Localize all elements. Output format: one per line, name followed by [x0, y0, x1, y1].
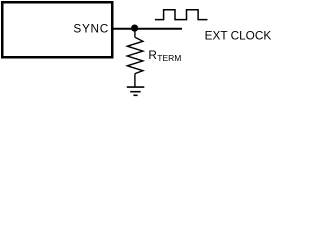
node junction dot	[131, 25, 138, 32]
ground	[127, 87, 145, 95]
resistor RTERM zigzag	[127, 37, 143, 73]
svg-text:EXT CLOCK: EXT CLOCK	[205, 29, 272, 43]
wire junction to resistor	[134, 29, 136, 38]
wire resistor to ground	[134, 74, 136, 88]
wire SYNC horizontal	[112, 28, 182, 30]
svg-text:SYNC: SYNC	[73, 21, 109, 35]
device box U1	[2, 2, 112, 57]
clock waveform	[155, 10, 208, 20]
svg-text:R: R	[148, 48, 157, 62]
svg-text:TERM: TERM	[157, 53, 181, 63]
